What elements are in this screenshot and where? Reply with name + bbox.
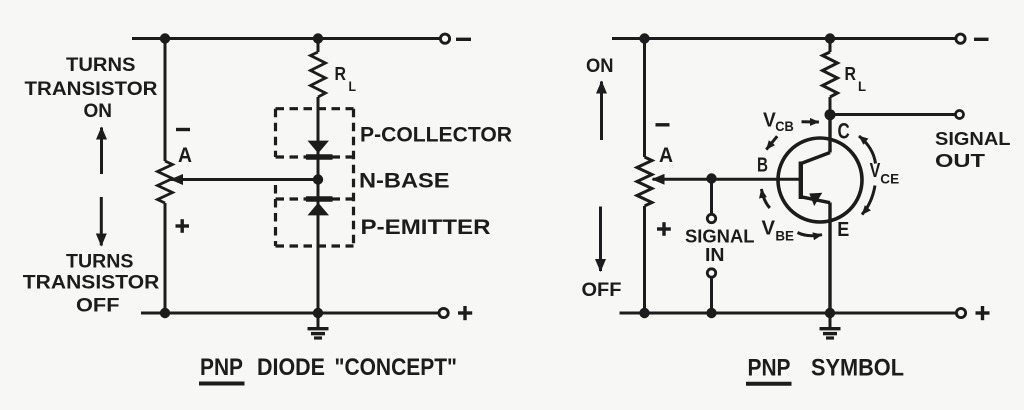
- svg-text:L: L: [349, 78, 357, 94]
- svg-text:A: A: [659, 143, 673, 167]
- svg-text:BE: BE: [775, 228, 794, 244]
- svg-text:CB: CB: [775, 118, 794, 134]
- svg-text:PNP: PNP: [748, 355, 791, 382]
- svg-text:OFF: OFF: [76, 296, 120, 317]
- svg-text:OUT: OUT: [935, 151, 985, 171]
- svg-text:R: R: [335, 64, 347, 84]
- svg-text:P-EMITTER: P-EMITTER: [361, 216, 491, 239]
- svg-text:SYMBOL: SYMBOL: [811, 355, 904, 382]
- svg-text:A: A: [178, 143, 192, 167]
- svg-text:E: E: [837, 219, 849, 241]
- svg-text:CE: CE: [880, 171, 899, 187]
- svg-text:"CONCEPT": "CONCEPT": [335, 354, 458, 381]
- svg-text:SIGNAL: SIGNAL: [935, 129, 1011, 149]
- svg-text:V: V: [762, 218, 776, 240]
- svg-text:PNP: PNP: [200, 354, 243, 381]
- svg-text:TURNS: TURNS: [66, 252, 134, 273]
- svg-text:TURNS: TURNS: [66, 55, 136, 76]
- svg-text:ON: ON: [84, 101, 113, 122]
- svg-text:C: C: [838, 119, 850, 144]
- svg-text:SIGNAL: SIGNAL: [685, 227, 755, 247]
- svg-text:IN: IN: [705, 245, 725, 265]
- svg-text:P-COLLECTOR: P-COLLECTOR: [360, 124, 512, 147]
- svg-text:TRANSISTOR: TRANSISTOR: [23, 273, 160, 294]
- svg-text:ON: ON: [586, 56, 614, 77]
- svg-text:R: R: [845, 64, 857, 84]
- svg-text:TRANSISTOR: TRANSISTOR: [25, 79, 158, 100]
- svg-text:L: L: [858, 78, 866, 94]
- svg-text:DIODE: DIODE: [257, 354, 325, 381]
- svg-text:OFF: OFF: [582, 280, 622, 301]
- svg-text:N-BASE: N-BASE: [359, 170, 450, 193]
- svg-text:B: B: [757, 155, 768, 177]
